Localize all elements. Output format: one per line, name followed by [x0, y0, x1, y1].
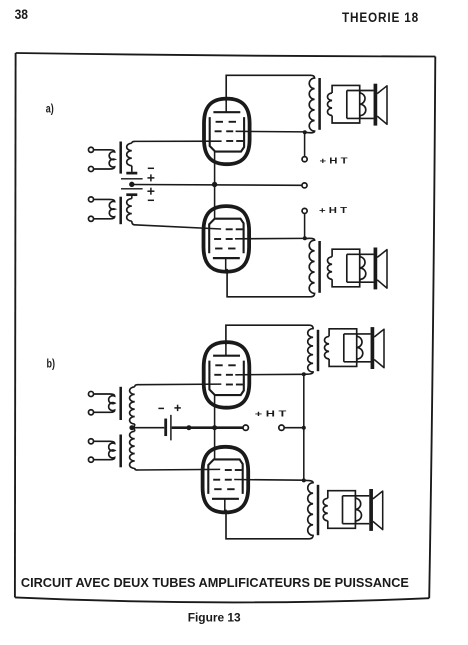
svg-text:+ H T: + H T [255, 409, 286, 418]
svg-text:b): b) [47, 359, 56, 371]
svg-text:THEORIE 18: THEORIE 18 [342, 10, 419, 26]
svg-text:Figure 13: Figure 13 [188, 610, 241, 624]
svg-text:+ H T: + H T [319, 206, 347, 215]
svg-text:a): a) [46, 104, 54, 116]
svg-text:+ H T: + H T [320, 157, 348, 166]
svg-text:CIRCUIT AVEC DEUX TUBES AMPLIF: CIRCUIT AVEC DEUX TUBES AMPLIFICATEURS D… [21, 575, 409, 590]
svg-text:38: 38 [15, 7, 28, 23]
